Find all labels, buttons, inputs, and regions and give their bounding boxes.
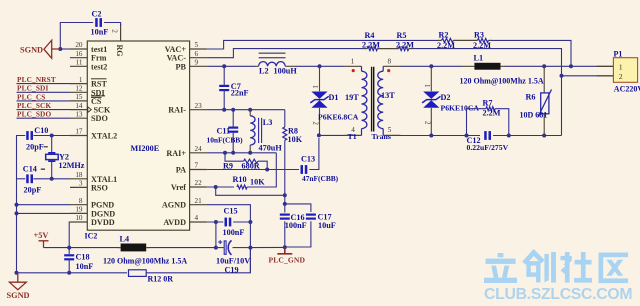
- wire PGND to rail: [17, 204, 71, 206]
- wire net PLC_SDO: [17, 117, 71, 119]
- SDI underline: [91, 95, 105, 97]
- resistor R7: [486, 107, 495, 111]
- pin 5 lead: [190, 48, 207, 50]
- wire net PLC_CS: [17, 100, 71, 102]
- pin name VAC+: [165, 45, 187, 54]
- capacitor C13: [301, 165, 308, 174]
- wire L2 to T1 pin1: [295, 65, 344, 67]
- svg-text:23: 23: [195, 102, 203, 110]
- net label PLC_SDO: [17, 110, 51, 119]
- resistor R8: [283, 110, 287, 196]
- node R7/C12 left junction: [465, 134, 469, 138]
- svg-text:VAC+: VAC+: [165, 45, 187, 54]
- T1 phase dot secondary: [387, 69, 390, 72]
- pin 14 number: [75, 102, 83, 110]
- wire crystal bottom: [51, 162, 53, 179]
- svg-text:R5: R5: [397, 31, 407, 40]
- pin name XTAL2: [91, 132, 117, 141]
- R3 value 2.2M: [473, 41, 491, 50]
- svg-text:test1: test1: [91, 45, 107, 54]
- inductor L4 (ferrite bead): [118, 244, 150, 252]
- C17 value 10uF: [318, 221, 336, 230]
- resistor R4: [367, 47, 377, 51]
- node P1 pin2 junction: [560, 74, 564, 78]
- wire rail up to P1 pin2: [561, 76, 563, 136]
- wire PA net: [207, 169, 299, 171]
- C10 label: [34, 126, 48, 135]
- wire R7 loop: [467, 109, 486, 136]
- pin 19 lead: [70, 212, 87, 214]
- C13 value: [302, 174, 339, 183]
- svg-text:XTAL2: XTAL2: [91, 132, 117, 141]
- svg-text:12: 12: [75, 85, 83, 93]
- svg-text:test2: test2: [91, 62, 107, 71]
- node C18 bottom junction: [67, 271, 71, 275]
- pin 24 number: [195, 145, 203, 153]
- net label PLC_SDI: [17, 84, 48, 93]
- pin name CS: [91, 97, 102, 106]
- T1 pin5 number: [388, 126, 392, 134]
- L2 value 100uH: [274, 67, 298, 76]
- R7 label: [483, 98, 493, 107]
- pin name SCK: [94, 106, 111, 115]
- node D1 bottom junction: [317, 133, 321, 137]
- svg-text:13: 13: [75, 110, 83, 118]
- wire RAI- net: [207, 109, 285, 111]
- SCK input arrow: [88, 107, 92, 113]
- D2 label: [441, 93, 451, 102]
- svg-text:L3: L3: [263, 118, 273, 127]
- svg-text:22: 22: [195, 179, 203, 187]
- connector P1 AC220V: [613, 58, 637, 83]
- svg-text:PLC_NRST: PLC_NRST: [17, 75, 56, 84]
- svg-text:IC2: IC2: [85, 232, 98, 241]
- svg-text:10nF(CBB): 10nF(CBB): [207, 136, 244, 145]
- pin name AGND: [162, 201, 186, 210]
- L2 label: [259, 67, 269, 76]
- wire VAC- (pin6) riser: [207, 49, 363, 58]
- pin 9 number: [195, 59, 199, 67]
- C15 label: [224, 207, 238, 216]
- C18 value 10nF: [76, 262, 94, 271]
- R8 label: [288, 127, 298, 136]
- pin name SDO: [91, 114, 108, 123]
- T1 part name Trans: [372, 132, 391, 141]
- svg-text:AGND: AGND: [162, 201, 186, 210]
- Y2 pin marks: [41, 146, 48, 170]
- svg-text:20pF: 20pF: [24, 186, 42, 195]
- pin 17 number: [75, 128, 83, 136]
- svg-text:SDO: SDO: [91, 114, 108, 123]
- L3 value 470uH: [259, 144, 283, 153]
- wire C14 to left rail: [17, 178, 26, 180]
- C7 wires: [223, 66, 225, 109]
- D1 pin1 mark: [311, 85, 318, 88]
- node L3 bottom junction: [248, 151, 252, 155]
- pin 8 lead: [70, 204, 87, 206]
- L2 core: [259, 53, 286, 58]
- R4 label: [365, 31, 375, 40]
- svg-text:R10: R10: [233, 175, 247, 184]
- svg-text:4: 4: [195, 214, 199, 222]
- D2 pin2 mark: [423, 121, 430, 125]
- T1 designator: [348, 132, 357, 141]
- svg-text:+5V: +5V: [34, 231, 49, 240]
- pin 23 number: [195, 102, 203, 110]
- pin 18 number: [75, 171, 83, 179]
- capacitor C18: [64, 254, 74, 260]
- R7 value 2.2M: [483, 108, 501, 117]
- capacitor C19 polarized: [216, 240, 251, 255]
- R5 label: [397, 31, 407, 40]
- pin name Vref: [171, 183, 186, 192]
- pin 2 lead (RG top pin): [120, 24, 122, 41]
- svg-text:2.2M: 2.2M: [396, 40, 414, 49]
- pin 22 number: [195, 179, 203, 187]
- resistor R3: [478, 38, 489, 42]
- R4 value 2.2M: [362, 40, 380, 49]
- node XTAL1/crystal junction: [50, 177, 54, 181]
- wire VAC- rail to P1: [413, 49, 562, 76]
- svg-text:19: 19: [75, 206, 83, 214]
- C2 value 10nF: [91, 28, 109, 37]
- svg-text:10uF: 10uF: [318, 221, 336, 230]
- bottom SGND rail: [17, 272, 128, 274]
- pin 4 number: [195, 214, 199, 222]
- pin name RAI+: [166, 149, 186, 158]
- wire R9 left branch: [225, 153, 244, 161]
- pin 23 lead: [190, 109, 207, 111]
- transient diode D2 P6KE10CA: [422, 66, 440, 135]
- node C11 bottom junction: [231, 151, 235, 155]
- svg-text:10uF/10V: 10uF/10V: [216, 257, 250, 266]
- pin 11 number: [76, 59, 83, 67]
- svg-text:P6KE6.8CA: P6KE6.8CA: [318, 113, 359, 122]
- C19 value: [216, 257, 250, 266]
- svg-text:20: 20: [75, 41, 83, 49]
- svg-text:R2: R2: [439, 30, 449, 39]
- svg-text:2.2M: 2.2M: [473, 41, 491, 50]
- wire AGND to PLC_GND: [250, 246, 285, 248]
- wire net PLC_SDI: [17, 91, 71, 93]
- svg-text:R4: R4: [365, 31, 375, 40]
- power port +5V: [39, 241, 49, 248]
- C18 label: [76, 253, 90, 262]
- wire C2 to pin2: [104, 23, 121, 26]
- svg-text:21: 21: [195, 197, 203, 205]
- svg-text:C18: C18: [76, 253, 90, 262]
- svg-text:11: 11: [76, 59, 83, 67]
- capacitor C2: [95, 18, 102, 27]
- resistor R2 leads: [438, 39, 492, 41]
- C2 label: [92, 10, 102, 19]
- svg-text:10D 681: 10D 681: [520, 111, 548, 120]
- pin 12 number: [75, 85, 83, 93]
- C7 value 22nF: [231, 89, 249, 98]
- svg-text:10K: 10K: [250, 177, 265, 186]
- transformer T1 secondary winding: [378, 66, 383, 135]
- node C19 plus junction: [214, 246, 218, 250]
- node Vref junction: [214, 185, 218, 189]
- svg-text:PGND: PGND: [91, 201, 114, 210]
- svg-text:14: 14: [75, 102, 83, 110]
- transformer T1 pin1 lead: [344, 65, 362, 67]
- wire C18 bottom: [68, 260, 70, 273]
- svg-text:RG: RG: [115, 45, 124, 57]
- resistor R10: [237, 185, 247, 189]
- svg-text:120 Ohm@100Mhz 1.5A: 120 Ohm@100Mhz 1.5A: [103, 257, 187, 266]
- svg-text:Trans: Trans: [372, 132, 391, 141]
- wire secondary bottom rail: [401, 135, 481, 137]
- svg-text:12MHz: 12MHz: [59, 161, 85, 170]
- Y2 value 12MHz: [59, 161, 85, 170]
- svg-text:RSO: RSO: [91, 183, 108, 192]
- node DGND junction: [15, 211, 19, 215]
- pin 2 number: [111, 29, 119, 33]
- node R9/PA junction: [265, 168, 269, 172]
- wire XTAL2 net: [33, 135, 70, 137]
- wire AVDD net: [207, 221, 223, 223]
- svg-text:18: 18: [75, 171, 83, 179]
- svg-text:C14: C14: [23, 165, 37, 174]
- wire L4 to AVDD node: [150, 247, 216, 249]
- L4 label: [120, 234, 130, 243]
- pin 21 lead: [190, 204, 207, 206]
- wire C10 to left rail: [17, 136, 26, 273]
- wire crystal top: [51, 136, 53, 153]
- svg-text:C10: C10: [34, 126, 48, 135]
- svg-text:1: 1: [79, 76, 83, 84]
- node PB/C7 junction: [222, 64, 226, 68]
- capacitor C12: [484, 131, 491, 140]
- RST overline: [91, 78, 107, 80]
- node R7 right junction: [507, 134, 511, 138]
- R8 value 10K: [288, 135, 303, 144]
- node PLC_GND junction: [283, 245, 287, 249]
- T1 pin8 number: [388, 58, 392, 66]
- inductor L3: [250, 110, 255, 153]
- node C7 bottom junction: [222, 108, 226, 112]
- pin name PB: [176, 62, 187, 71]
- svg-text:15: 15: [75, 93, 83, 101]
- pin name DGND: [91, 209, 115, 218]
- T1 pin1 number: [351, 58, 355, 66]
- pin 1 number: [79, 76, 83, 84]
- wire pin20 to SGND node: [60, 48, 70, 50]
- wire AVDD riser: [215, 222, 217, 248]
- Y2 label: [59, 152, 69, 161]
- R9 label: [223, 162, 233, 171]
- P1 pin2 number: [619, 72, 623, 81]
- svg-text:PLC_GND: PLC_GND: [269, 256, 306, 265]
- svg-text:R12 0R: R12 0R: [148, 275, 174, 284]
- pin name AVDD: [163, 218, 186, 227]
- pin 20 lead: [70, 48, 87, 50]
- capacitor C7: [219, 85, 229, 91]
- svg-text:DVDD: DVDD: [91, 218, 115, 227]
- wire C13 to transformer: [309, 138, 319, 170]
- pin 15 number: [75, 93, 83, 101]
- svg-text:L2: L2: [259, 67, 269, 76]
- svg-text:AVDD: AVDD: [163, 218, 186, 227]
- svg-text:PLC_SDO: PLC_SDO: [17, 110, 51, 119]
- svg-text:47nF(CBB): 47nF(CBB): [302, 174, 339, 183]
- wire R9 right to PA: [258, 161, 267, 169]
- svg-text:13T: 13T: [381, 91, 395, 100]
- node C18 top junction: [67, 246, 71, 250]
- svg-text:0.22uF/275V: 0.22uF/275V: [467, 143, 509, 152]
- R2 value 2.2M: [437, 41, 455, 50]
- crystal Y2: [46, 152, 59, 162]
- svg-text:2.2M: 2.2M: [483, 108, 501, 117]
- wire PB net: [207, 65, 255, 67]
- T1 secondary turns 13T: [381, 91, 395, 100]
- pin 24 lead: [190, 152, 207, 154]
- wire T1 pin8 to L1: [401, 65, 463, 67]
- svg-text:1: 1: [311, 85, 318, 88]
- node C11 top junction: [231, 108, 235, 112]
- R12 label: [148, 275, 174, 284]
- L3 label: [263, 118, 273, 127]
- pin name RSO: [91, 183, 108, 192]
- D1 primary turns 19T: [345, 93, 359, 102]
- svg-text:19T: 19T: [345, 93, 359, 102]
- svg-text:C19: C19: [225, 266, 239, 275]
- node SGND rail junction: [15, 271, 19, 275]
- pin name test2: [91, 62, 107, 71]
- PLC_GND label: [269, 256, 306, 265]
- svg-text:C13: C13: [301, 155, 315, 164]
- pin 13 number: [75, 110, 83, 118]
- pin 12 lead: [70, 91, 87, 93]
- inductor L2: [255, 62, 295, 67]
- C13 label: [301, 155, 315, 164]
- svg-text:D2: D2: [441, 93, 451, 102]
- resistor R5: [399, 47, 409, 51]
- wire DVDD down to 5V rail: [68, 222, 71, 248]
- pin 17 lead: [70, 135, 87, 137]
- P1 designator: [614, 49, 623, 58]
- wire L1 to P1: [505, 65, 597, 67]
- transformer T1 primary winding: [362, 66, 367, 135]
- pin name DVDD: [91, 218, 115, 227]
- capacitor C15: [225, 218, 232, 227]
- capacitor C16: [280, 214, 290, 220]
- resistor R9: [244, 159, 258, 163]
- svg-text:2: 2: [619, 72, 623, 81]
- C11 label: [217, 127, 231, 136]
- C14 value 20pF: [24, 186, 42, 195]
- wire net PLC_NRST: [17, 83, 71, 85]
- D2 pin1 mark: [423, 84, 430, 87]
- svg-text:100uH: 100uH: [274, 67, 298, 76]
- wire XTAL1 net: [33, 178, 70, 180]
- svg-text:9: 9: [195, 59, 199, 67]
- IC2 designator label: [85, 232, 98, 241]
- node Vref/R8 junction: [283, 193, 287, 197]
- C11 wires: [232, 110, 234, 153]
- pin name SDI: [91, 88, 105, 97]
- C17 label: [318, 213, 332, 222]
- pin name RAI-: [168, 106, 186, 115]
- svg-text:CS: CS: [91, 97, 102, 106]
- watermark logo: [484, 252, 628, 283]
- pin name RST: [91, 80, 107, 89]
- wire R7 right: [495, 109, 509, 136]
- svg-text:L4: L4: [120, 234, 130, 243]
- svg-text:R7: R7: [483, 98, 493, 107]
- pin name PA: [176, 166, 186, 175]
- pin 19 number: [75, 206, 83, 214]
- wire Vref lower branch: [216, 187, 285, 195]
- pin 1 lead: [70, 83, 87, 85]
- node L3 top junction: [248, 108, 252, 112]
- node AVDD junction: [214, 220, 218, 224]
- C14 label: [23, 165, 37, 174]
- pin 7 number: [195, 162, 199, 170]
- pin 3 number: [79, 180, 83, 188]
- wire net PLC_SCK: [17, 109, 71, 111]
- node D2 top junction: [429, 64, 433, 68]
- pin 6 lead: [190, 57, 207, 59]
- svg-text:470uH: 470uH: [259, 144, 283, 153]
- node C15 right junction: [248, 220, 252, 224]
- connector P1 leads: [597, 66, 614, 76]
- power port SGND bottom: [9, 273, 26, 290]
- R2 label: [439, 30, 449, 39]
- wire C12 right rail: [493, 135, 562, 137]
- wire DGND to rail: [17, 212, 71, 214]
- node R6 bottom junction: [542, 134, 546, 138]
- svg-text:2: 2: [312, 122, 319, 126]
- power port PLC_GND: [277, 247, 292, 254]
- svg-text:100nF: 100nF: [285, 221, 307, 230]
- C19 label: [225, 266, 239, 275]
- varistor R6 10D681: [538, 66, 552, 135]
- pin 16 lead: [70, 57, 87, 59]
- R10 value 10K: [250, 177, 265, 186]
- node R9 left junction: [223, 151, 227, 155]
- watermark url: [484, 286, 632, 303]
- svg-text:D1: D1: [329, 93, 339, 102]
- pin name test1: [91, 45, 107, 54]
- net label PLC_CS: [17, 92, 45, 101]
- D1 value P6KE6.8CA: [318, 113, 359, 122]
- svg-text:20pF: 20pF: [26, 142, 44, 151]
- pin 15 lead: [70, 100, 87, 102]
- wire C16 bottom: [284, 221, 286, 247]
- D1 pin2 mark: [312, 122, 319, 126]
- R5 value 2.2M: [396, 40, 414, 49]
- node R6 top junction: [542, 64, 546, 68]
- svg-text:MI200E: MI200E: [131, 144, 160, 153]
- svg-text:10nF: 10nF: [91, 28, 109, 37]
- transformer T1 pin4 lead: [344, 134, 362, 136]
- transient diode D1 P6KE6.8CA: [310, 66, 328, 135]
- svg-text:RAI+: RAI+: [166, 149, 186, 158]
- pin name XTAL1: [91, 175, 117, 184]
- C11 value: [207, 136, 244, 145]
- svg-text:2: 2: [111, 29, 119, 33]
- +5V label: [34, 231, 49, 240]
- L3 core: [259, 118, 262, 143]
- node P1 pin1 junction: [569, 64, 573, 68]
- svg-text:100nF: 100nF: [223, 228, 245, 237]
- R10 label: [233, 175, 247, 184]
- capacitor C11: [228, 127, 238, 133]
- wire R10 right to RAI+ riser: [247, 153, 276, 187]
- R6 label: [526, 93, 536, 102]
